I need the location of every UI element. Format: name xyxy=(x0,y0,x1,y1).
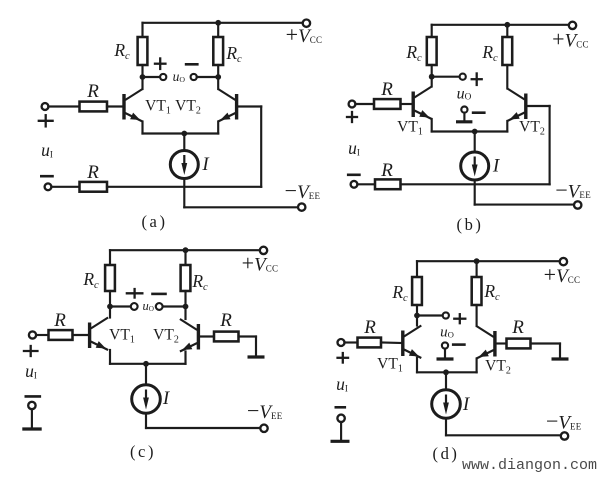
+Vcc terminal (d) xyxy=(560,258,567,265)
wire current source to -Vee rail (d) xyxy=(445,418,447,435)
wire emitter node to current source (d) xyxy=(445,372,447,389)
node collector VT2 (a) xyxy=(215,74,221,80)
resistor Rc2 (a) xyxy=(213,37,223,65)
resistor R2 (d) xyxy=(507,339,531,349)
svg-text:R: R xyxy=(511,317,524,338)
resistor R2 (a) xyxy=(80,182,108,192)
circuit (b) top supply rail wire xyxy=(432,24,569,26)
svg-text:R: R xyxy=(380,160,393,181)
circuit (c) top supply rail wire xyxy=(110,249,263,251)
wire Rc1 to collector node (b) xyxy=(431,65,433,77)
transistor VT1 (b) xyxy=(413,87,432,120)
wire input+ to R1 (c) xyxy=(36,334,48,336)
output - sign (b) xyxy=(473,111,484,114)
wire current source to -Vee rail (b) xyxy=(474,180,476,205)
svg-text:(b): (b) xyxy=(456,215,483,234)
transistor VT1 (d) xyxy=(403,326,422,359)
wire collector node to output + terminal (c) xyxy=(110,305,131,307)
svg-text:uI: uI xyxy=(25,361,37,381)
-Vee terminal (a) xyxy=(298,203,305,210)
wire input- to R2 (b) xyxy=(357,183,375,185)
svg-text:−VEE: −VEE xyxy=(285,178,321,203)
wire collector node to output + terminal (a) xyxy=(143,76,161,78)
resistor R1 (a) xyxy=(80,102,108,112)
wire Rc1 to collector node (a) xyxy=(141,65,143,77)
svg-text:VT1: VT1 xyxy=(397,119,423,138)
wire VT1 collector (b) xyxy=(431,77,433,87)
-Vee rail wire (d) xyxy=(446,434,561,436)
junction dot on +Vcc rail at Rc2 (d) xyxy=(474,258,480,264)
svg-text:R: R xyxy=(219,310,232,331)
output - polarity sign (a) xyxy=(186,63,197,66)
output + polarity sign (a) xyxy=(155,63,166,65)
transistor VT2 (d) xyxy=(476,326,495,359)
-Vee terminal (b) xyxy=(574,201,581,208)
wire VT1 emitter (c) xyxy=(109,350,111,364)
emitter rail wire (a) xyxy=(143,132,219,134)
wire collector node to output terminal (d) xyxy=(417,314,443,316)
resistor Rc1 (b) xyxy=(427,37,437,65)
input ground bar (c) xyxy=(22,427,41,430)
input + terminal (d) xyxy=(338,339,345,346)
resistor Rc1 (a) xyxy=(138,37,148,65)
wire VT1 collector (c) xyxy=(109,307,111,318)
svg-text:I: I xyxy=(201,154,210,175)
input + terminal (c) xyxy=(29,331,36,338)
svg-text:Rc: Rc xyxy=(191,271,208,293)
svg-text:VT1: VT1 xyxy=(109,327,135,346)
output + polarity sign (c) xyxy=(127,292,143,294)
emitter junction node (c) xyxy=(143,361,149,367)
emitter junction node (a) xyxy=(181,131,187,137)
+Vcc terminal (b) xyxy=(569,22,576,29)
svg-text:Rc: Rc xyxy=(82,269,99,291)
wire VT1 emitter (a) xyxy=(141,122,143,134)
wire VT2 collector (c) xyxy=(184,307,186,320)
svg-text:VT1: VT1 xyxy=(377,356,403,375)
output reference terminal circle (b) xyxy=(461,107,467,113)
svg-text:uO: uO xyxy=(173,69,186,84)
wire emitter node to current source (b) xyxy=(474,132,476,153)
current source I (d) xyxy=(432,390,461,419)
wire R1 to VT1 base (b) xyxy=(401,103,414,105)
wire R2 to VT2 base feed (b) xyxy=(401,183,550,185)
wire VT2 emitter (a) xyxy=(217,122,219,134)
wire VT2 emitter (b) xyxy=(506,121,508,132)
node collector VT1 (c) xyxy=(107,304,113,310)
input - sign (c) xyxy=(26,395,40,398)
svg-text:R: R xyxy=(86,162,99,183)
output - polarity sign (c) xyxy=(153,293,166,296)
wire reference terminal to ground (d) xyxy=(444,349,446,358)
+Vcc terminal (c) xyxy=(260,247,267,254)
resistor Rc2 (b) xyxy=(502,37,512,65)
ground bar output (d) xyxy=(437,357,454,360)
svg-text:+VCC: +VCC xyxy=(242,251,279,276)
wire VT2 emitter (c) xyxy=(184,352,186,364)
svg-text:(a): (a) xyxy=(141,212,167,231)
resistor Rc2 (c) xyxy=(181,265,191,291)
svg-text:+VCC: +VCC xyxy=(286,22,323,47)
svg-text:+VCC: +VCC xyxy=(544,262,581,287)
svg-text:Rc: Rc xyxy=(391,282,408,304)
output + sign (b) xyxy=(472,78,482,80)
svg-text:I: I xyxy=(462,394,471,415)
junction dot on +Vcc rail at Rc2 (b) xyxy=(504,22,510,28)
current source I (b) xyxy=(461,152,489,180)
svg-text:uO: uO xyxy=(457,86,472,103)
wire input+ to R1 (b) xyxy=(355,103,374,105)
ground bar (b) xyxy=(456,120,472,123)
wire VT1 collector (a) xyxy=(141,77,143,89)
wire output - terminal to collector node (a) xyxy=(197,76,219,78)
transistor VT2 (b) xyxy=(507,89,526,122)
input - ground terminal (d) xyxy=(337,415,344,422)
-Vee terminal (c) xyxy=(260,425,267,432)
wire input- to R2 (a) xyxy=(51,186,79,188)
svg-text:uI: uI xyxy=(41,140,53,160)
wire reference terminal to ground (b) xyxy=(463,113,465,121)
wire R1 to VT1 base (c) xyxy=(73,334,90,336)
current source I (a) xyxy=(170,151,198,179)
wire rail to Rc2 (a) xyxy=(217,23,219,37)
output + terminal circle (a) xyxy=(160,74,166,80)
svg-text:www.diangon.com: www.diangon.com xyxy=(462,457,597,474)
transistor VT2 (c) xyxy=(180,319,199,352)
svg-text:I: I xyxy=(162,388,171,409)
svg-text:VT2: VT2 xyxy=(175,98,201,117)
wire Rc2 to VT2 collector (b) xyxy=(506,65,508,89)
output terminal circle (d) xyxy=(443,312,449,318)
svg-text:R: R xyxy=(53,310,66,331)
output reference terminal circle (d) xyxy=(442,342,448,348)
wire input+ to R1 (d) xyxy=(345,341,358,343)
wire VT2 base to R2 (c) xyxy=(198,335,214,337)
resistor Rc2 (d) xyxy=(472,277,482,305)
svg-text:R: R xyxy=(86,81,99,102)
wire R1 to VT1 base (d) xyxy=(381,341,403,344)
junction dot on +Vcc rail at Rc2 (a) xyxy=(215,20,221,26)
wire Rc2 to collector node (c) xyxy=(184,291,186,307)
emitter junction node (d) xyxy=(443,369,449,375)
wire Rc2 to VT2 collector (d) xyxy=(476,305,478,326)
transistor VT2 (a) xyxy=(218,89,237,122)
wire VT2 base horizontal (b) xyxy=(526,105,550,107)
wire VT1 emitter (d) xyxy=(416,358,418,372)
wire VT2 collector (a) xyxy=(217,77,219,89)
svg-text:I: I xyxy=(492,156,501,177)
node collector VT1 (b) xyxy=(429,74,435,80)
emitter rail wire (c) xyxy=(110,363,186,365)
resistor Rc1 (c) xyxy=(105,265,115,291)
resistor R1 (c) xyxy=(49,330,73,340)
junction dot on +Vcc rail at Rc2 (c) xyxy=(183,247,189,253)
svg-text:R: R xyxy=(363,317,376,338)
wire rail to Rc2 (c) xyxy=(184,250,186,265)
node collector VT2 (c) xyxy=(183,304,189,310)
wire Rc1 to collector node (d) xyxy=(416,305,418,316)
svg-text:VT1: VT1 xyxy=(145,98,171,117)
svg-text:VT2: VT2 xyxy=(519,119,545,138)
wire VT2 base horizontal (a) xyxy=(237,105,262,107)
svg-text:Rc: Rc xyxy=(225,43,242,65)
input - terminal (b) xyxy=(351,181,358,188)
svg-text:R: R xyxy=(380,79,393,100)
wire output - terminal to collector node (c) xyxy=(163,305,186,307)
svg-text:(c): (c) xyxy=(130,442,156,461)
wire R1 to VT1 base (a) xyxy=(107,105,124,107)
svg-text:(d): (d) xyxy=(432,444,459,463)
wire R2 to ground (c) xyxy=(239,335,257,337)
wire VT1 emitter (b) xyxy=(431,119,433,132)
circuit (a) top supply rail wire xyxy=(143,22,303,24)
svg-text:+VCC: +VCC xyxy=(552,27,589,52)
wire emitter node to current source (a) xyxy=(183,134,185,151)
input - sign (d) xyxy=(336,406,345,409)
output + sign (d) xyxy=(454,318,465,320)
svg-text:uI: uI xyxy=(348,138,360,158)
emitter junction node (b) xyxy=(472,129,478,135)
wire VT2 base feed vertical (a) xyxy=(260,107,262,187)
input + terminal (a) xyxy=(42,103,49,110)
wire rail to Rc1 (b) xyxy=(431,25,433,37)
wire R2 to VT2 base feed (a) xyxy=(107,186,261,188)
resistor Rc1 (d) xyxy=(412,277,422,305)
wire VT1 collector (d) xyxy=(416,316,418,326)
svg-text:VT2: VT2 xyxy=(153,327,179,346)
wire collector node to output terminal (b) xyxy=(432,76,460,78)
-Vee rail wire (a) xyxy=(184,206,298,208)
wire VT2 base to R2 (d) xyxy=(495,342,507,344)
svg-text:VT2: VT2 xyxy=(485,358,511,377)
svg-text:uI: uI xyxy=(336,374,348,394)
wire emitter node to current source (c) xyxy=(145,364,147,385)
input - terminal (a) xyxy=(45,183,52,190)
svg-text:Rc: Rc xyxy=(483,281,500,303)
input + sign (d) xyxy=(338,357,349,359)
wire input- terminal to ground (c) xyxy=(31,409,33,428)
resistor R2 (b) xyxy=(375,179,401,189)
output - sign (d) xyxy=(453,343,464,346)
wire Rc1 to collector node (c) xyxy=(109,291,111,307)
wire rail to Rc1 (a) xyxy=(141,23,143,37)
+Vcc terminal (a) xyxy=(303,20,310,27)
wire VT2 base feed vertical (b) xyxy=(549,106,551,184)
svg-text:Rc: Rc xyxy=(481,42,498,64)
wire rail to Rc1 (d) xyxy=(416,261,418,277)
current source I (c) xyxy=(132,385,161,414)
input + terminal (b) xyxy=(349,101,356,108)
wire VT2 emitter (d) xyxy=(476,359,478,373)
input + sign (a) xyxy=(39,120,53,122)
input ground bar (d) xyxy=(331,440,350,443)
output + terminal circle (c) xyxy=(131,303,138,310)
svg-text:Rc: Rc xyxy=(113,40,130,62)
node collector VT1 (a) xyxy=(140,74,146,80)
wire current source to -Vee rail (a) xyxy=(183,179,185,208)
input - ground terminal (c) xyxy=(28,402,35,409)
output - terminal circle (a) xyxy=(191,74,197,80)
transistor VT1 (a) xyxy=(124,89,143,122)
-Vee terminal (d) xyxy=(561,432,568,439)
svg-text:−VEE: −VEE xyxy=(247,398,283,423)
emitter rail wire (d) xyxy=(417,371,477,373)
svg-text:−VEE: −VEE xyxy=(555,177,591,202)
wire rail to Rc1 (c) xyxy=(109,250,111,265)
ground bar VT2 base (d) xyxy=(552,357,569,360)
-Vee rail wire (b) xyxy=(475,204,574,206)
resistor R2 (c) xyxy=(214,332,239,342)
wire input- terminal to ground (d) xyxy=(340,422,342,440)
wire R2 ground vertical (c) xyxy=(255,337,257,356)
resistor R1 (b) xyxy=(374,99,401,109)
node collector VT1 (d) xyxy=(414,313,420,319)
wire R2 ground vertical (d) xyxy=(559,344,561,358)
emitter rail wire (b) xyxy=(432,130,508,132)
input + sign (c) xyxy=(24,350,38,352)
wire R2 to ground (d) xyxy=(531,342,561,344)
svg-text:Rc: Rc xyxy=(405,42,422,64)
svg-text:uO: uO xyxy=(142,299,153,313)
input - sign (b) xyxy=(348,174,359,177)
transistor VT1 (c) xyxy=(90,318,109,351)
wire current source to -Vee rail (c) xyxy=(145,413,147,428)
resistor R1 (d) xyxy=(358,338,382,348)
output - terminal circle (c) xyxy=(156,303,163,310)
output terminal circle (b) xyxy=(460,74,466,80)
ground bar VT2 base (c) xyxy=(248,355,265,358)
wire Rc2 to collector node (a) xyxy=(217,65,219,77)
svg-text:−VEE: −VEE xyxy=(546,409,582,434)
input + sign (b) xyxy=(347,116,357,118)
input - sign (a) xyxy=(41,175,52,178)
wire rail to Rc2 (d) xyxy=(476,261,478,277)
-Vee rail wire (c) xyxy=(146,427,261,429)
circuit (d) top supply rail wire xyxy=(417,260,563,262)
wire input+ to R1 (a) xyxy=(48,105,79,107)
wire rail to Rc2 (b) xyxy=(506,25,508,37)
svg-text:uO: uO xyxy=(440,325,454,341)
